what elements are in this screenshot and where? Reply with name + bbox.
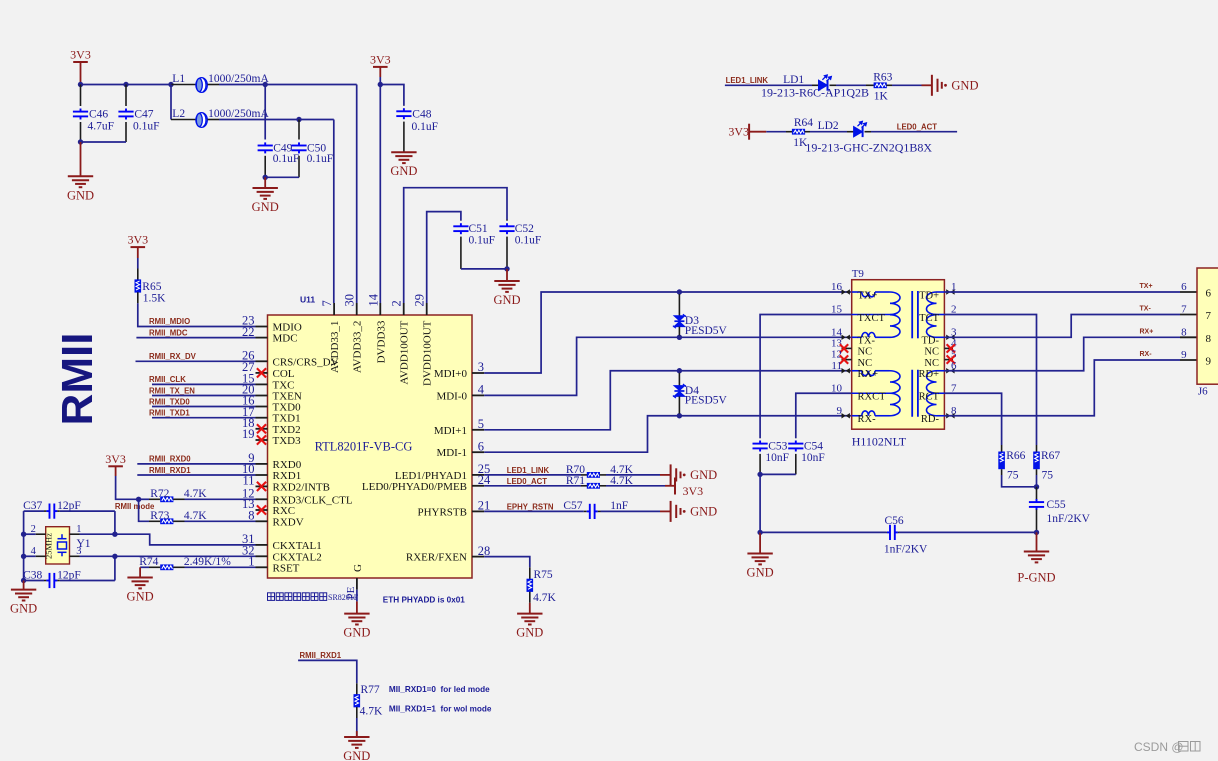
svg-text:TX+: TX+ xyxy=(1140,283,1153,290)
TVS diode D4 xyxy=(677,368,682,373)
wire MDI+0 to transformer TX+ xyxy=(484,292,852,373)
wire C56 to C55 node xyxy=(897,531,900,533)
svg-text:GND: GND xyxy=(516,626,543,640)
svg-text:RMII_TXD0: RMII_TXD0 xyxy=(149,397,190,406)
T9 TXCT tap xyxy=(852,314,893,316)
svg-text:NC: NC xyxy=(858,347,873,358)
svg-text:0.1uF: 0.1uF xyxy=(307,153,334,165)
wire MDI-0 to transformer TX- xyxy=(484,337,852,395)
crystal Y1 pin 2 xyxy=(24,533,36,535)
svg-text:1nF: 1nF xyxy=(610,500,628,512)
junction C38/XTAL2 xyxy=(112,554,117,559)
resistor R74 (RSET) xyxy=(140,566,149,568)
svg-text:RMII_MDC: RMII_MDC xyxy=(149,328,188,337)
ground GND (C46/C47) xyxy=(80,142,82,176)
svg-text:GND: GND xyxy=(343,749,370,761)
svg-text:8: 8 xyxy=(1181,327,1187,339)
svg-text:1000/250mA: 1000/250mA xyxy=(208,73,269,85)
wire strap to R73 row xyxy=(139,499,149,521)
power port GND (pin25) xyxy=(671,464,681,485)
svg-text:C56: C56 xyxy=(885,515,904,527)
svg-text:LD1: LD1 xyxy=(783,74,804,86)
U11 pin 17 TXD1 xyxy=(256,417,268,419)
wire TCT to R67 xyxy=(944,315,1036,446)
capacitor C54 xyxy=(795,437,797,439)
svg-text:TXCT: TXCT xyxy=(858,313,886,324)
svg-text:RMII_TXD1: RMII_TXD1 xyxy=(149,409,190,418)
wire 3V3 to DVDD33 pin 14 xyxy=(379,77,381,303)
LED LD1 xyxy=(819,75,832,91)
crystal Y1 pin 1 wire to CKXTAL1 xyxy=(70,533,80,535)
svg-text:C37: C37 xyxy=(23,500,42,512)
wire RXCT to C54 xyxy=(796,393,852,438)
svg-text:TD-: TD- xyxy=(922,336,940,347)
U11 pin 30 AVDD33_2 xyxy=(356,303,358,315)
svg-text:T9: T9 xyxy=(852,268,865,280)
inductor L1 xyxy=(171,84,196,86)
svg-text:TXD3: TXD3 xyxy=(273,435,302,447)
svg-text:PESD5V: PESD5V xyxy=(685,325,728,337)
wire C46/C47 ground join xyxy=(81,141,127,143)
svg-text:R64: R64 xyxy=(794,117,813,129)
wire TXCT to C53 xyxy=(760,315,852,439)
svg-text:EPHY_RSTN: EPHY_RSTN xyxy=(507,503,554,512)
svg-text:LD2: LD2 xyxy=(818,120,839,132)
junction rail/C38 xyxy=(21,578,26,583)
resistor R73 xyxy=(149,520,160,522)
junction L2/C50 xyxy=(296,117,301,122)
capacitor C37 xyxy=(24,510,44,512)
svg-text:2: 2 xyxy=(390,300,404,306)
svg-text:2.49K/1%: 2.49K/1% xyxy=(184,556,231,568)
capacitor C47 xyxy=(125,85,127,107)
svg-text:1: 1 xyxy=(248,555,254,569)
svg-text:R77: R77 xyxy=(361,684,380,696)
wire pin28 RXER to R75 xyxy=(484,557,530,568)
U11 pin 21 PHYRSTB xyxy=(472,510,484,512)
T9 RCT tap xyxy=(934,392,944,394)
svg-text:3V3: 3V3 xyxy=(370,52,391,66)
wire 3V3 to R65 xyxy=(137,258,139,269)
svg-text:AVDD33_1: AVDD33_1 xyxy=(329,321,341,373)
svg-text:13: 13 xyxy=(831,337,843,349)
svg-text:R65: R65 xyxy=(142,281,161,293)
svg-text:RMII_RXD1: RMII_RXD1 xyxy=(300,651,342,660)
svg-text:3: 3 xyxy=(76,546,81,557)
wire crystal left rail xyxy=(23,511,25,580)
svg-text:3V3: 3V3 xyxy=(105,452,126,466)
svg-text:3V3: 3V3 xyxy=(70,48,91,62)
transformer T9 body H1102NLT xyxy=(852,280,945,430)
wire 3V3 rail xyxy=(81,84,172,86)
svg-text:14: 14 xyxy=(366,293,380,306)
U11 pin 9 RXD0 xyxy=(256,463,268,465)
svg-text:RXDV: RXDV xyxy=(273,516,304,528)
svg-text:PHYRSTB: PHYRSTB xyxy=(417,506,467,518)
U11 pin 19 TXD3 xyxy=(256,439,268,441)
svg-text:GND: GND xyxy=(67,188,94,202)
ground GND (C49/C50) xyxy=(264,177,266,188)
TVS diode D3 xyxy=(677,289,682,294)
svg-text:RTL8201F-VB-CG: RTL8201F-VB-CG xyxy=(315,440,413,454)
svg-text:2: 2 xyxy=(31,524,36,535)
ground P-GND xyxy=(1036,532,1038,551)
svg-text:RXD2/INTB: RXD2/INTB xyxy=(273,481,330,493)
svg-text:7: 7 xyxy=(1181,304,1187,316)
svg-text:CKXTAL1: CKXTAL1 xyxy=(273,540,322,552)
svg-text:6: 6 xyxy=(1181,281,1187,293)
junction rail/Y1 pin2 xyxy=(21,532,26,537)
svg-text:7: 7 xyxy=(320,300,334,306)
svg-text:19: 19 xyxy=(242,427,255,441)
wire RD+ to J6 pin8 xyxy=(944,337,1180,370)
junction C55/C56 net xyxy=(1034,530,1039,535)
svg-text:J6: J6 xyxy=(1198,386,1208,398)
junction rail/Y1 pin4 xyxy=(21,554,26,559)
ground GND (C48) xyxy=(391,152,416,163)
svg-text:RXD1: RXD1 xyxy=(273,470,302,482)
svg-text:4.7K: 4.7K xyxy=(360,706,383,718)
svg-text:AVDD10OUT: AVDD10OUT xyxy=(399,320,411,384)
U11 pin 25 LED1/PHYAD1 xyxy=(472,474,484,476)
wire C57 to GND port xyxy=(598,510,601,512)
svg-text:0.1uF: 0.1uF xyxy=(412,121,439,133)
svg-text:GND: GND xyxy=(747,566,774,580)
svg-text:1nF/2KV: 1nF/2KV xyxy=(1047,513,1091,525)
wire LD2 to LED0_ACT xyxy=(865,131,872,133)
U11 pin 16 TXD0 xyxy=(256,406,268,408)
wire R70 to GND port xyxy=(600,474,606,476)
svg-text:C48: C48 xyxy=(412,109,431,121)
ground GND (crystal rail) xyxy=(23,581,25,590)
wire TD- to J6 pin7 xyxy=(944,315,1180,338)
U11 pin 13 RXC xyxy=(256,509,268,511)
svg-text:R71: R71 xyxy=(566,475,585,487)
IC U11 RTL8201F-VB-CG body xyxy=(268,315,473,578)
svg-text:0.1uF: 0.1uF xyxy=(469,234,496,246)
svg-text:3V3: 3V3 xyxy=(728,125,749,139)
wire R63 to GND port xyxy=(886,84,892,86)
wire pin24 to R71 xyxy=(484,485,581,487)
wire C53/C54 join xyxy=(760,473,796,475)
svg-text:11: 11 xyxy=(242,474,254,488)
svg-text:1000/250mA: 1000/250mA xyxy=(208,108,269,120)
svg-text:GND: GND xyxy=(343,626,370,640)
crystal Y1 pin 3 wire to CKXTAL2 xyxy=(70,555,80,557)
svg-text:SR8201F: SR8201F xyxy=(328,593,359,602)
svg-text:12pF: 12pF xyxy=(57,500,81,512)
svg-text:PESD5V: PESD5V xyxy=(685,395,728,407)
svg-text:RXC: RXC xyxy=(273,505,296,517)
svg-text:LED1_LINK: LED1_LINK xyxy=(507,466,550,475)
junction C37/XTAL1 xyxy=(112,532,117,537)
wire RMII_RX_DV xyxy=(136,360,256,362)
svg-text:1.5K: 1.5K xyxy=(143,293,166,305)
svg-text:4.7K: 4.7K xyxy=(184,510,207,522)
crystal Y1 body xyxy=(46,527,70,564)
U11 pin 27 COL xyxy=(256,372,268,374)
ground GND (U11 pad) xyxy=(356,601,358,613)
svg-text:9: 9 xyxy=(1206,356,1212,368)
wire LD1 to R63 xyxy=(830,84,837,86)
resistor R66 xyxy=(1001,445,1003,452)
capacitor C50 xyxy=(298,120,300,140)
svg-text:TX+: TX+ xyxy=(858,290,878,301)
wire DVDD10OUT pin 29 to C51 xyxy=(427,212,461,303)
ground GND (R77) xyxy=(356,731,358,737)
wire RCT to R66 xyxy=(944,393,1001,445)
wire 3V3 to R64 xyxy=(766,131,786,133)
svg-text:C53: C53 xyxy=(768,441,787,453)
U11 pin 5 MDI+1 xyxy=(472,429,484,431)
power port GND (pin21) xyxy=(671,501,681,522)
svg-text:RXCT: RXCT xyxy=(858,392,887,403)
svg-text:1K: 1K xyxy=(874,91,889,103)
svg-text:RMII mode: RMII mode xyxy=(115,502,155,511)
U11 pin 26 CRS/CRS_DV xyxy=(256,360,268,362)
svg-text:GND: GND xyxy=(493,293,520,307)
svg-text:R73: R73 xyxy=(150,510,169,522)
svg-text:MDI-0: MDI-0 xyxy=(436,390,467,402)
svg-text:C46: C46 xyxy=(89,109,108,121)
wire TD+ to J6 pin6 xyxy=(944,291,1180,293)
svg-text:1: 1 xyxy=(76,524,81,535)
wire RMII_TX_EN xyxy=(152,395,256,397)
resistor R63 xyxy=(874,82,887,88)
capacitor C56 xyxy=(887,525,898,540)
capacitor C38 xyxy=(24,580,44,582)
svg-text:4.7uF: 4.7uF xyxy=(88,121,115,133)
inductor L2 xyxy=(171,119,196,121)
U11 pin 28 RXER/FXEN xyxy=(472,556,484,558)
svg-text:RX+: RX+ xyxy=(858,369,879,380)
wire MDI-1 to transformer RX- xyxy=(484,416,852,452)
T9 TX core xyxy=(911,291,913,338)
svg-text:11: 11 xyxy=(831,360,842,372)
resistor R67 xyxy=(1036,445,1038,452)
svg-text:5: 5 xyxy=(478,417,484,431)
svg-text:R66: R66 xyxy=(1006,450,1025,462)
svg-text:L2: L2 xyxy=(172,108,185,120)
svg-text:RMII_TX_EN: RMII_TX_EN xyxy=(149,386,195,395)
junction L1/C49 xyxy=(263,82,268,87)
wire L2 branch xyxy=(170,85,172,120)
T9 secondary TD winding xyxy=(937,291,945,293)
svg-text:GND: GND xyxy=(252,200,279,214)
svg-text:TXD2: TXD2 xyxy=(273,424,301,436)
svg-text:COL: COL xyxy=(273,368,295,380)
svg-text:8: 8 xyxy=(248,509,254,523)
U11 pin 18 TXD2 xyxy=(256,428,268,430)
svg-text:12pF: 12pF xyxy=(57,569,81,581)
ground GND (R75) xyxy=(517,614,542,625)
wire R64 to LD2 xyxy=(805,131,810,133)
wire 3V3 strap column xyxy=(116,476,139,499)
svg-text:22: 22 xyxy=(242,325,255,339)
U11 pin 4 MDI-0 xyxy=(472,394,484,396)
svg-text:RX-: RX- xyxy=(858,414,877,425)
LED LD2 xyxy=(854,121,867,137)
svg-text:MDC: MDC xyxy=(273,333,298,345)
svg-text:9: 9 xyxy=(1181,349,1187,361)
svg-text:25MHz: 25MHz xyxy=(44,533,54,559)
ground GND (C53/C54) xyxy=(759,532,761,553)
wire MDI+1 to transformer RX+ xyxy=(484,371,852,430)
svg-text:6: 6 xyxy=(478,439,484,453)
svg-text:1nF/2KV: 1nF/2KV xyxy=(884,544,928,556)
junction C47 xyxy=(123,82,128,87)
svg-text:RX+: RX+ xyxy=(1140,328,1154,335)
capacitor C46 xyxy=(80,85,82,107)
wire R75 to GND xyxy=(529,592,531,603)
U11 pin 29 DVDD10OUT xyxy=(426,303,428,315)
svg-text:R74: R74 xyxy=(139,556,158,568)
U11 pin 10 RXD1 xyxy=(256,474,268,476)
svg-text:LED0_ACT: LED0_ACT xyxy=(507,477,548,486)
resistor R71 xyxy=(587,483,600,489)
svg-text:GND: GND xyxy=(10,602,37,616)
svg-text:GND: GND xyxy=(690,505,717,519)
svg-text:0.1uF: 0.1uF xyxy=(273,153,300,165)
junction 3V3/C48 branch xyxy=(378,82,383,87)
wire C38 to XTAL2 net xyxy=(114,556,116,580)
svg-text:C57: C57 xyxy=(563,500,582,512)
junction L1/L2 split xyxy=(168,82,173,87)
wire C37 to XTAL1 net xyxy=(114,511,116,534)
svg-text:MDI+0: MDI+0 xyxy=(434,368,468,380)
svg-text:NC: NC xyxy=(924,347,939,358)
U11 pin 32 CKXTAL2 xyxy=(256,555,268,557)
wire RMII_TXD0 xyxy=(152,406,256,408)
svg-text:LED1_LINK: LED1_LINK xyxy=(726,76,769,85)
wire G pad to ground xyxy=(356,590,358,602)
svg-text:19-213-GHC-ZN2Q1B8X: 19-213-GHC-ZN2Q1B8X xyxy=(805,141,932,155)
resistor R72 xyxy=(139,498,149,500)
svg-text:C55: C55 xyxy=(1047,499,1066,511)
svg-text:C52: C52 xyxy=(515,223,534,235)
svg-text:6: 6 xyxy=(1206,288,1212,300)
svg-text:21: 21 xyxy=(478,499,491,513)
svg-text:19-213-R6C-AP1Q2B: 19-213-R6C-AP1Q2B xyxy=(761,86,869,100)
svg-text:TXD0: TXD0 xyxy=(273,402,302,414)
wire AVDD10OUT pin 2 to C52 xyxy=(404,188,507,303)
svg-text:CSDN @: CSDN @ xyxy=(1134,740,1184,754)
crystal Y1 pin 4 xyxy=(24,555,36,557)
svg-text:ETH PHYADD is 0x01: ETH PHYADD is 0x01 xyxy=(383,595,466,604)
resistor R75 xyxy=(527,579,534,592)
svg-text:NC: NC xyxy=(924,358,939,369)
resistor R70 xyxy=(587,472,600,478)
U11 pin 2 AVDD10OUT xyxy=(403,303,405,315)
wire CT net down xyxy=(759,474,761,532)
ground GND (R74) xyxy=(139,567,141,577)
capacitor C52 xyxy=(506,220,508,221)
resistor R65 xyxy=(135,279,142,292)
wire RMII_TXD1 xyxy=(152,417,256,419)
svg-text:C38: C38 xyxy=(23,569,42,581)
wire C48 branch xyxy=(380,85,404,106)
T9 TCT tap xyxy=(934,314,944,316)
U11 pin 11 RXD2/INTB xyxy=(256,485,268,487)
svg-text:RX-: RX- xyxy=(1140,351,1153,358)
U11 pin 24 LED0/PHYAD0/PMEB xyxy=(472,485,484,487)
svg-text:GND: GND xyxy=(390,164,417,178)
wire L1 output to AVDD33_2 xyxy=(219,84,357,86)
svg-text:MII_RXD1=0 for led mode: MII_RXD1=0 for led mode xyxy=(389,685,490,694)
svg-text:NC: NC xyxy=(858,358,873,369)
svg-text:10nF: 10nF xyxy=(801,452,825,464)
U11 pin 14 DVDD33 xyxy=(379,303,381,315)
T9 secondary RD winding xyxy=(937,370,945,372)
svg-text:LED0/PHYAD0/PMEB: LED0/PHYAD0/PMEB xyxy=(362,481,467,493)
svg-text:C51: C51 xyxy=(469,223,488,235)
U11 pin 1 RSET xyxy=(256,566,268,568)
svg-text:R63: R63 xyxy=(873,72,892,84)
svg-text:8: 8 xyxy=(1206,333,1212,345)
wire pin25 to R70 xyxy=(484,474,581,476)
svg-text:AVDD33_2: AVDD33_2 xyxy=(352,321,364,373)
wire RMII_RXD1 xyxy=(137,474,255,476)
wire RMII_MDC xyxy=(136,337,255,339)
capacitor C51 xyxy=(460,220,462,222)
svg-text:TX-: TX- xyxy=(858,336,876,347)
U11 pin 31 CKXTAL1 xyxy=(256,544,268,546)
svg-text:LED0_ACT: LED0_ACT xyxy=(897,123,938,132)
resistor R64 xyxy=(792,129,805,135)
svg-text:RMII_RXD0: RMII_RXD0 xyxy=(149,455,191,464)
svg-text:28: 28 xyxy=(478,544,491,558)
U11 pin 3 MDI+0 xyxy=(472,372,484,374)
svg-text:C47: C47 xyxy=(134,109,153,121)
T9 primary RX winding xyxy=(852,370,862,372)
capacitor C57 xyxy=(587,504,598,519)
svg-text:U11: U11 xyxy=(300,295,315,305)
svg-text:75: 75 xyxy=(1007,470,1019,482)
svg-text:R72: R72 xyxy=(150,488,169,500)
svg-text:7: 7 xyxy=(1206,310,1212,322)
U11 pin 15 TXC xyxy=(256,383,268,385)
svg-text:4: 4 xyxy=(31,546,37,557)
wire RD- to J6 pin9 xyxy=(944,360,1180,416)
svg-text:3V3: 3V3 xyxy=(127,233,148,247)
svg-text:3V3: 3V3 xyxy=(683,484,704,498)
svg-text:3: 3 xyxy=(478,360,484,374)
svg-text:MDI-1: MDI-1 xyxy=(436,447,467,459)
wire L2 output to AVDD33_1 xyxy=(219,119,334,121)
U11 pin 20 TXEN xyxy=(256,395,268,397)
wire LED1 link row xyxy=(725,84,812,86)
U11 pin 7 AVDD33_1 xyxy=(333,303,335,315)
power port GND (LD1) xyxy=(932,75,942,96)
T9 primary TX winding xyxy=(852,291,862,293)
wire pin21 to C57 xyxy=(484,510,584,512)
capacitor C53 xyxy=(759,437,761,439)
junction 3V3/C46 xyxy=(78,82,83,87)
wire R65 to RMII_MDIO xyxy=(137,292,139,303)
capacitor C49 xyxy=(264,85,266,140)
U11 pin 23 MDIO xyxy=(256,326,268,328)
junction R66/R67/C55 xyxy=(1034,484,1039,489)
svg-text:C54: C54 xyxy=(804,441,823,453)
svg-text:GND: GND xyxy=(951,79,978,93)
svg-text:MDI+1: MDI+1 xyxy=(434,425,467,437)
svg-text:H1102NLT: H1102NLT xyxy=(852,435,907,449)
U11 pin 8 RXDV xyxy=(256,520,268,522)
power port 3V3 (pin24) xyxy=(674,478,676,495)
svg-text:0.1uF: 0.1uF xyxy=(133,121,160,133)
svg-text:MII_RXD1=1 for wol mode: MII_RXD1=1 for wol mode xyxy=(389,705,492,714)
ground GND (C51/C52) xyxy=(506,269,508,281)
